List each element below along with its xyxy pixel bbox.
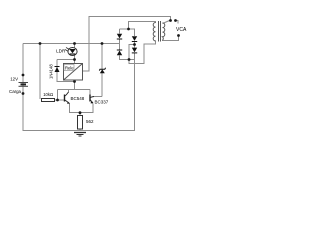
diode D5 bridge bottom-right bbox=[132, 48, 137, 53]
node dot 10k top bbox=[39, 42, 42, 45]
diode D2 bridge top-left bbox=[117, 34, 122, 39]
svg-text:Rele: Rele bbox=[65, 66, 74, 71]
node terminal C VCA bottom bbox=[177, 34, 180, 37]
node dot bridge top takeoff bbox=[127, 28, 130, 31]
transistor Q2 BC337 bbox=[90, 95, 94, 104]
node dot relay bottom bbox=[73, 80, 76, 83]
diode D3 bridge bottom-left bbox=[117, 50, 122, 55]
svg-text:1N4148: 1N4148 bbox=[49, 64, 54, 79]
wire relay contact right bbox=[83, 17, 171, 72]
wire bridge bottom bbox=[120, 59, 136, 61]
node dot battery top bbox=[22, 74, 25, 77]
wire 10k top lead bbox=[39, 44, 41, 100]
svg-text:LDR: LDR bbox=[56, 48, 66, 53]
wire AC2 from mid right bbox=[129, 44, 156, 64]
wire bridge left top bbox=[119, 29, 121, 34]
node dot LDR bottom bbox=[73, 58, 76, 61]
svg-text:BC548: BC548 bbox=[71, 96, 85, 101]
wire 1N4148 vertical bbox=[56, 60, 58, 83]
wire BC337 emitter vertical bbox=[92, 104, 94, 114]
wire zener to BC337 collector bbox=[94, 96, 102, 98]
svg-text:10kΩ: 10kΩ bbox=[43, 92, 53, 97]
svg-text:VCA: VCA bbox=[176, 27, 187, 33]
ground bbox=[74, 133, 86, 137]
node dot LDR top bbox=[73, 42, 76, 45]
wire base feed horizontal bbox=[58, 89, 91, 91]
transformer T1 primary coil bbox=[153, 23, 155, 41]
node dot bridge bottom bbox=[128, 58, 131, 61]
node dot bridge mid right bbox=[133, 43, 136, 46]
wire 10k right lead bbox=[55, 99, 58, 101]
wire node to 1N4148 top bbox=[57, 59, 75, 61]
wire 1N4148 bottom bbox=[57, 81, 75, 83]
LDR symbol bbox=[65, 48, 77, 56]
wire 562 bottom lead bbox=[79, 129, 81, 131]
wire secondary top lead bbox=[163, 21, 170, 24]
svg-text:12V: 12V bbox=[10, 77, 18, 82]
wire left vertical bbox=[22, 44, 24, 132]
wire bridge left mid bbox=[119, 39, 121, 51]
relay K1 box bbox=[64, 64, 83, 81]
node dot zener top bbox=[101, 42, 104, 45]
transformer T1 core bbox=[159, 21, 161, 42]
wire to BC337 base bbox=[89, 90, 91, 95]
wire VCA pin stub bbox=[175, 21, 178, 24]
wire secondary bottom lead bbox=[163, 36, 179, 41]
wire bridge right bottom bbox=[134, 53, 136, 60]
wire to BC548 base bbox=[57, 90, 59, 101]
node dot BC548 base bbox=[56, 99, 59, 102]
wire bridge top takeoff bbox=[129, 22, 157, 30]
wire primary bottom lead bbox=[155, 41, 157, 45]
wire bridge right mid bbox=[134, 42, 136, 48]
zener diode Z1 bbox=[99, 68, 105, 73]
node dot emitter common bbox=[79, 111, 82, 114]
wire LDR bottom to node bbox=[74, 56, 76, 64]
diode D1 1N4148 bbox=[55, 67, 60, 73]
wire LDR column top bbox=[74, 44, 76, 48]
wire bridge left bottom bbox=[119, 56, 121, 61]
wire relay bottom stub bbox=[74, 80, 76, 90]
wire BC548 collector vertical bbox=[68, 90, 70, 93]
resistor R1 10k box bbox=[42, 99, 55, 102]
wire right long vertical bbox=[134, 60, 136, 131]
resistor R2 562 box bbox=[78, 116, 83, 130]
svg-text:562: 562 bbox=[86, 119, 94, 124]
node dot battery bottom bbox=[22, 92, 25, 95]
wire BC548 base lead bbox=[58, 99, 65, 101]
wire bottom rail bbox=[23, 130, 135, 132]
wire primary top lead bbox=[155, 22, 157, 24]
battery B1 12V bbox=[19, 83, 29, 87]
node terminal A relay contact bbox=[169, 19, 172, 22]
node terminal B VCA top bbox=[174, 19, 177, 22]
wire top rail bbox=[23, 43, 120, 45]
wire BC548 emitter vertical bbox=[69, 104, 71, 114]
wire bridge top bbox=[120, 28, 136, 30]
transistor Q1 BC548 bbox=[65, 92, 70, 104]
svg-text:Carga: Carga bbox=[9, 89, 22, 94]
svg-text:BC337: BC337 bbox=[95, 100, 109, 105]
transformer T1 secondary coil bbox=[163, 23, 165, 40]
wire emitter common bottom bbox=[70, 112, 94, 114]
wire bridge right top bbox=[134, 29, 136, 36]
diode D4 bridge top-right bbox=[132, 36, 137, 41]
wire zener column bbox=[101, 44, 103, 97]
wire 562 top lead bbox=[79, 113, 81, 116]
